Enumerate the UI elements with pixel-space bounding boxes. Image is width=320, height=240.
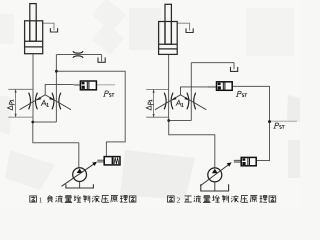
svg-text:1: 1 [39,196,43,205]
svg-text:2: 2 [177,196,181,205]
